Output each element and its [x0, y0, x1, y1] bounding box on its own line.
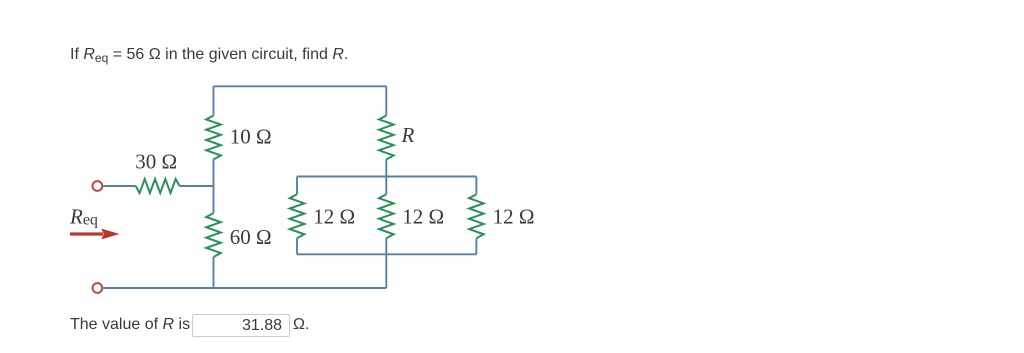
svg-text:10 Ω: 10 Ω [230, 125, 272, 149]
svg-text:60 Ω: 60 Ω [230, 225, 272, 249]
svg-text:R: R [401, 123, 415, 147]
svg-text:12 Ω: 12 Ω [493, 205, 535, 229]
svg-text:30 Ω: 30 Ω [135, 149, 177, 173]
svg-text:Req: Req [69, 204, 98, 228]
svg-text:12 Ω: 12 Ω [402, 205, 444, 229]
svg-text:12 Ω: 12 Ω [313, 205, 355, 229]
